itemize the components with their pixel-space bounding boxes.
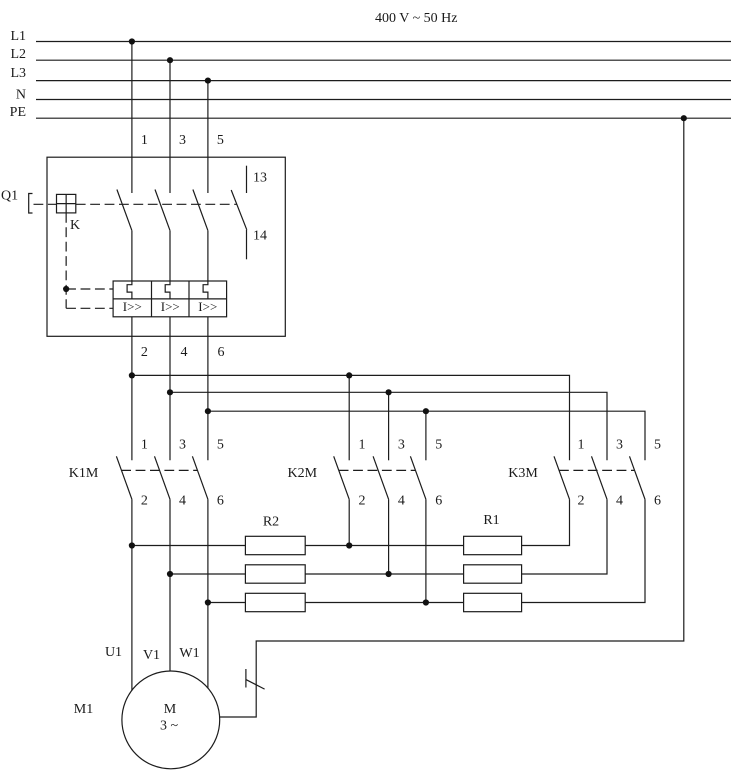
svg-text:2: 2 [141, 345, 148, 360]
svg-text:400 V ~ 50 Hz: 400 V ~ 50 Hz [375, 11, 458, 26]
svg-text:N: N [16, 88, 26, 103]
svg-text:6: 6 [654, 494, 661, 509]
svg-text:1: 1 [578, 438, 585, 453]
svg-text:4: 4 [179, 494, 186, 509]
svg-text:2: 2 [359, 494, 366, 509]
svg-text:Q1: Q1 [1, 189, 18, 204]
svg-text:U1: U1 [105, 645, 122, 660]
svg-text:3: 3 [179, 438, 186, 453]
svg-text:L3: L3 [10, 66, 26, 81]
svg-text:K2M: K2M [288, 466, 318, 481]
svg-text:I>>: I>> [161, 299, 180, 314]
svg-text:6: 6 [217, 494, 224, 509]
svg-text:6: 6 [435, 494, 442, 509]
svg-text:V1: V1 [143, 648, 160, 663]
svg-text:3 ~: 3 ~ [160, 719, 179, 734]
svg-text:3: 3 [179, 133, 186, 148]
svg-text:6: 6 [218, 345, 225, 360]
svg-text:1: 1 [141, 133, 148, 148]
svg-text:5: 5 [217, 438, 224, 453]
svg-text:4: 4 [181, 345, 188, 360]
svg-text:W1: W1 [179, 646, 199, 661]
svg-text:R1: R1 [483, 513, 499, 528]
svg-text:5: 5 [217, 133, 224, 148]
svg-text:2: 2 [578, 494, 585, 509]
svg-text:1: 1 [359, 438, 366, 453]
svg-text:4: 4 [616, 494, 623, 509]
svg-text:4: 4 [398, 494, 405, 509]
svg-text:14: 14 [253, 229, 267, 244]
svg-text:3: 3 [398, 438, 405, 453]
svg-text:5: 5 [654, 438, 661, 453]
svg-text:K1M: K1M [69, 466, 99, 481]
svg-text:I>>: I>> [123, 299, 142, 314]
svg-text:1: 1 [141, 438, 148, 453]
svg-text:L2: L2 [10, 47, 26, 62]
svg-text:I>>: I>> [198, 299, 217, 314]
svg-text:L1: L1 [10, 29, 26, 44]
svg-text:K: K [70, 218, 80, 233]
svg-text:K3M: K3M [508, 466, 538, 481]
svg-text:PE: PE [10, 105, 26, 120]
svg-text:M1: M1 [74, 702, 93, 717]
svg-text:5: 5 [435, 438, 442, 453]
svg-text:M: M [164, 702, 177, 717]
svg-text:2: 2 [141, 494, 148, 509]
svg-text:R2: R2 [263, 515, 279, 530]
svg-text:3: 3 [616, 438, 623, 453]
svg-text:13: 13 [253, 171, 267, 186]
